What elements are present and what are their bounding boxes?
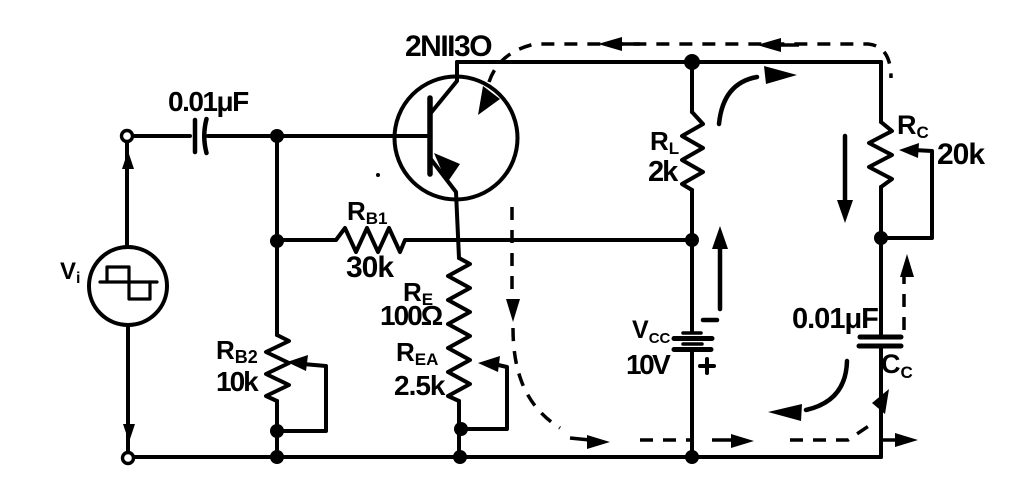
svg-text:2k: 2k bbox=[648, 156, 679, 188]
svg-text:0.01μF: 0.01μF bbox=[792, 303, 878, 335]
svg-text:20k: 20k bbox=[937, 138, 985, 171]
svg-text:2NII3O: 2NII3O bbox=[405, 30, 492, 63]
svg-text:100Ω: 100Ω bbox=[380, 300, 443, 331]
svg-text:2.5k: 2.5k bbox=[394, 370, 446, 401]
svg-text:30k: 30k bbox=[346, 251, 394, 284]
svg-text:0.01μF: 0.01μF bbox=[168, 86, 249, 117]
svg-text:10k: 10k bbox=[216, 366, 259, 397]
svg-text:10V: 10V bbox=[626, 349, 671, 380]
